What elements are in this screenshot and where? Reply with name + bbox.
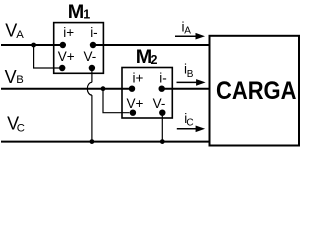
current iC arrow bbox=[177, 126, 205, 133]
svg-text:C: C bbox=[17, 122, 25, 134]
M1 terminal dot i- bbox=[90, 42, 96, 48]
current iC label bbox=[184, 111, 193, 129]
current iA arrow bbox=[175, 33, 205, 40]
M1 terminal dot V- bbox=[89, 65, 95, 71]
svg-text:M: M bbox=[68, 1, 84, 23]
M2 terminal dot i- bbox=[159, 86, 165, 92]
wire M1 V- down to VC with hop over VB bbox=[91, 68, 93, 82]
M1 terminal dot i+ bbox=[60, 42, 66, 48]
node junction dot M1 V- on VC bbox=[90, 139, 95, 144]
svg-text:i-: i- bbox=[90, 25, 98, 40]
svg-text:V-: V- bbox=[84, 49, 97, 64]
meter M2 label bbox=[136, 46, 158, 68]
svg-text:A: A bbox=[16, 29, 24, 41]
meter M1 label bbox=[68, 1, 90, 23]
wire M2 V- down to VC bbox=[161, 113, 163, 142]
svg-text:i-: i- bbox=[159, 71, 167, 86]
current iB arrow bbox=[177, 79, 206, 86]
M2 terminal dot V+ bbox=[130, 110, 136, 116]
node B junction dot on VB bbox=[101, 86, 106, 91]
node A junction dot on VA bbox=[31, 43, 36, 48]
M2 terminal dot V- bbox=[159, 110, 165, 116]
node VC label bbox=[7, 114, 25, 135]
svg-text:CARGA: CARGA bbox=[216, 77, 297, 105]
node junction dot M2 V- on VC bbox=[160, 139, 165, 144]
node VA label bbox=[5, 20, 24, 41]
meter M1 box bbox=[54, 23, 104, 74]
svg-text:V: V bbox=[5, 67, 17, 87]
wire VA junction down to M1 V+ bbox=[34, 45, 60, 68]
svg-text:A: A bbox=[184, 26, 191, 37]
meter M2 box bbox=[122, 68, 172, 119]
wire VC bbox=[1, 141, 210, 143]
wire VB junction down to M2 V+ bbox=[103, 89, 130, 113]
svg-text:B: B bbox=[187, 69, 194, 80]
svg-text:C: C bbox=[186, 118, 193, 129]
svg-text:V+: V+ bbox=[127, 96, 144, 111]
svg-text:B: B bbox=[16, 74, 24, 86]
svg-text:i+: i+ bbox=[133, 71, 144, 86]
svg-text:i+: i+ bbox=[63, 25, 74, 40]
svg-text:V+: V+ bbox=[58, 49, 75, 64]
wire VB right segment to CARGA bbox=[162, 88, 210, 90]
wire VA right segment to CARGA bbox=[93, 44, 210, 46]
node VB label bbox=[5, 67, 24, 87]
wire VB left segment bbox=[1, 88, 132, 90]
current iA label bbox=[182, 19, 192, 36]
svg-text:2: 2 bbox=[151, 53, 158, 67]
svg-text:V-: V- bbox=[153, 96, 166, 111]
current iB label bbox=[184, 62, 194, 80]
svg-text:1: 1 bbox=[83, 8, 90, 22]
wire VA left segment bbox=[1, 44, 63, 46]
M2 terminal dot i+ bbox=[129, 86, 135, 92]
M1 terminal dot V+ bbox=[59, 65, 65, 71]
load CARGA box bbox=[210, 36, 300, 146]
